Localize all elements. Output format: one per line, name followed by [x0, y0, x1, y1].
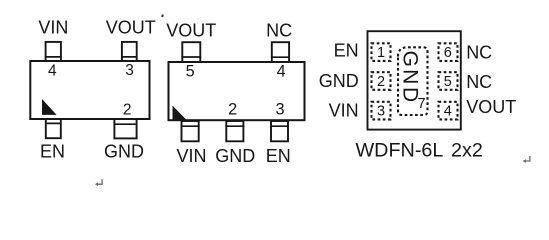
pin 2 lead (U1 GND, bottom-right) — [114, 119, 138, 138]
svg-text:1: 1 — [377, 45, 385, 61]
U2 pin number 4 — [277, 63, 286, 81]
svg-text:NC: NC — [466, 72, 492, 92]
pin 5 lead (U2 VOUT, top-left) — [181, 42, 201, 62]
U3 label VIN — [329, 101, 359, 121]
svg-text:GND: GND — [104, 141, 144, 161]
U3 pin number 5 — [444, 74, 452, 90]
U3 pin number 4 — [444, 104, 452, 120]
U3 pad label GND (rotated) — [398, 51, 421, 103]
pin 2 lead (U2 GND, bottom-middle) — [225, 121, 244, 141]
svg-text:N: N — [398, 69, 421, 84]
U3 pad pin 1 (EN, left top) — [372, 43, 391, 61]
U3 label NC (pin 6) — [466, 42, 492, 62]
stray dot artifact — [161, 14, 164, 17]
U3 pin number 3 — [377, 104, 385, 120]
svg-text:VIN: VIN — [177, 146, 207, 166]
svg-text:EN: EN — [266, 146, 291, 166]
U3 pad pin 3 (VIN, left bottom) — [372, 102, 391, 120]
U3 label NC (pin 5) — [466, 72, 492, 92]
svg-text:NC: NC — [266, 20, 292, 40]
svg-text:3: 3 — [125, 62, 134, 79]
U3 pin number 6 — [444, 45, 452, 61]
U2 label EN — [266, 146, 291, 166]
pin 3 lead (U1 VOUT, top-right) — [121, 42, 137, 61]
package U2 body (SOT-25) — [169, 62, 305, 120]
U3 pad pin 5 (NC, right middle) — [439, 72, 458, 90]
svg-text:G: G — [398, 51, 421, 67]
U3 pad number 7 — [418, 96, 426, 112]
U1 pin number 3 — [125, 62, 134, 79]
svg-text:3: 3 — [377, 104, 385, 120]
U2 pin number 5 — [186, 63, 195, 81]
U2 pin number 2 — [228, 101, 237, 119]
U1 label VIN — [38, 18, 68, 38]
pin-1 marker triangle (U2) — [173, 106, 187, 120]
U2 pin number 3 — [275, 101, 284, 119]
paragraph return mark (bottom left) — [95, 179, 102, 186]
package U3 outline (WDFN-6L) — [368, 31, 461, 129]
svg-text:D: D — [398, 87, 421, 102]
svg-text:VOUT: VOUT — [106, 18, 156, 38]
svg-text:EN: EN — [334, 41, 359, 61]
U1 label GND — [104, 141, 144, 161]
pin 4 lead (U2 NC, top-right) — [271, 42, 290, 62]
svg-text:GND: GND — [319, 71, 359, 91]
svg-text:2: 2 — [123, 102, 132, 119]
U2 label VOUT — [166, 20, 216, 40]
U2 label NC — [266, 20, 292, 40]
svg-text:4: 4 — [444, 104, 452, 120]
svg-text:5: 5 — [186, 63, 195, 81]
svg-text:3: 3 — [275, 101, 284, 119]
pin 4 lead (U1 VIN, top-left) — [45, 42, 62, 61]
U2 label VIN — [177, 146, 207, 166]
U3 pin number 1 — [377, 45, 385, 61]
U3 pin number 2 — [377, 74, 385, 90]
package U1 body (SOT-23) — [30, 61, 149, 119]
U3 label EN — [334, 41, 359, 61]
pin 1 lead (U1 EN, bottom-left) — [45, 119, 62, 138]
U1 pin number 4 — [48, 63, 57, 80]
U3 pad pin 6 (NC, right top) — [439, 43, 458, 61]
pin 3 lead (U2 EN, bottom-right) — [270, 121, 289, 141]
svg-text:VOUT: VOUT — [166, 20, 216, 40]
U1 label VOUT — [106, 18, 156, 38]
svg-text:VIN: VIN — [329, 101, 359, 121]
svg-text:EN: EN — [40, 141, 65, 161]
svg-text:5: 5 — [444, 74, 452, 90]
U2 label GND — [215, 146, 255, 166]
U3 pad pin 2 (GND, left middle) — [372, 72, 391, 90]
U1 pin number 2 — [123, 102, 132, 119]
U3 label GND — [319, 71, 359, 91]
svg-text:VOUT: VOUT — [466, 97, 516, 117]
U3 pad pin 4 (VOUT, right bottom) — [439, 102, 458, 120]
U3 label VOUT — [466, 97, 516, 117]
svg-text:6: 6 — [444, 45, 452, 61]
svg-text:NC: NC — [466, 42, 492, 62]
pin 1 lead (U2 VIN, bottom-left) — [181, 121, 200, 141]
U1 label EN — [40, 141, 65, 161]
svg-text:4: 4 — [48, 63, 57, 80]
svg-text:2: 2 — [228, 101, 237, 119]
U3 exposed pad (GND, pin 7) — [398, 47, 428, 115]
svg-text:4: 4 — [277, 63, 286, 81]
svg-text:GND: GND — [215, 146, 255, 166]
U3 caption WDFN-6L 2x2 — [356, 140, 483, 162]
svg-text:VIN: VIN — [38, 18, 68, 38]
paragraph return mark (bottom right) — [523, 156, 530, 163]
svg-text:2: 2 — [377, 74, 385, 90]
svg-text:WDFN-6L 2x2: WDFN-6L 2x2 — [356, 140, 483, 162]
pin-1 marker triangle (U1) — [42, 99, 57, 115]
